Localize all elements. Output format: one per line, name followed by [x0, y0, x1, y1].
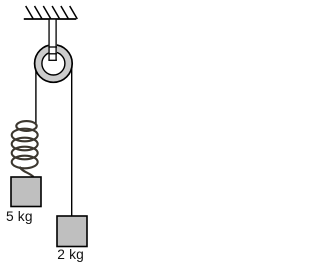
svg-text:5 kg: 5 kg — [6, 209, 33, 224]
spring coil 1 — [16, 121, 36, 131]
spring tail — [20, 167, 34, 177]
svg-text:2 kg: 2 kg — [57, 247, 84, 262]
spring coil 5 — [12, 156, 38, 169]
ceiling hatch 4 — [52, 6, 60, 19]
mass block 5 kg — [11, 177, 41, 207]
mass block 2 kg — [57, 216, 87, 247]
ceiling hatch 6 — [70, 6, 78, 19]
ceiling hatch 3 — [43, 6, 51, 19]
spring coil 4 — [12, 147, 38, 160]
wire left rope — [35, 63, 37, 125]
bracket right side — [55, 20, 57, 61]
bracket white strap — [48, 20, 57, 61]
pulley outer wheel — [35, 45, 73, 83]
spring coil 2 — [12, 129, 38, 142]
wire right rope — [71, 63, 73, 217]
bracket rung 1 — [48, 46, 57, 48]
ceiling hatch 5 — [61, 6, 69, 19]
bracket left side — [48, 20, 50, 61]
ceiling line — [24, 18, 76, 20]
bracket rung 2 — [48, 53, 57, 55]
spring coil 3 — [12, 138, 38, 151]
bracket bottom — [48, 59, 57, 61]
ceiling hatch 2 — [35, 6, 43, 19]
pulley inner hub — [42, 52, 65, 75]
ceiling hatch 1 — [26, 6, 34, 19]
